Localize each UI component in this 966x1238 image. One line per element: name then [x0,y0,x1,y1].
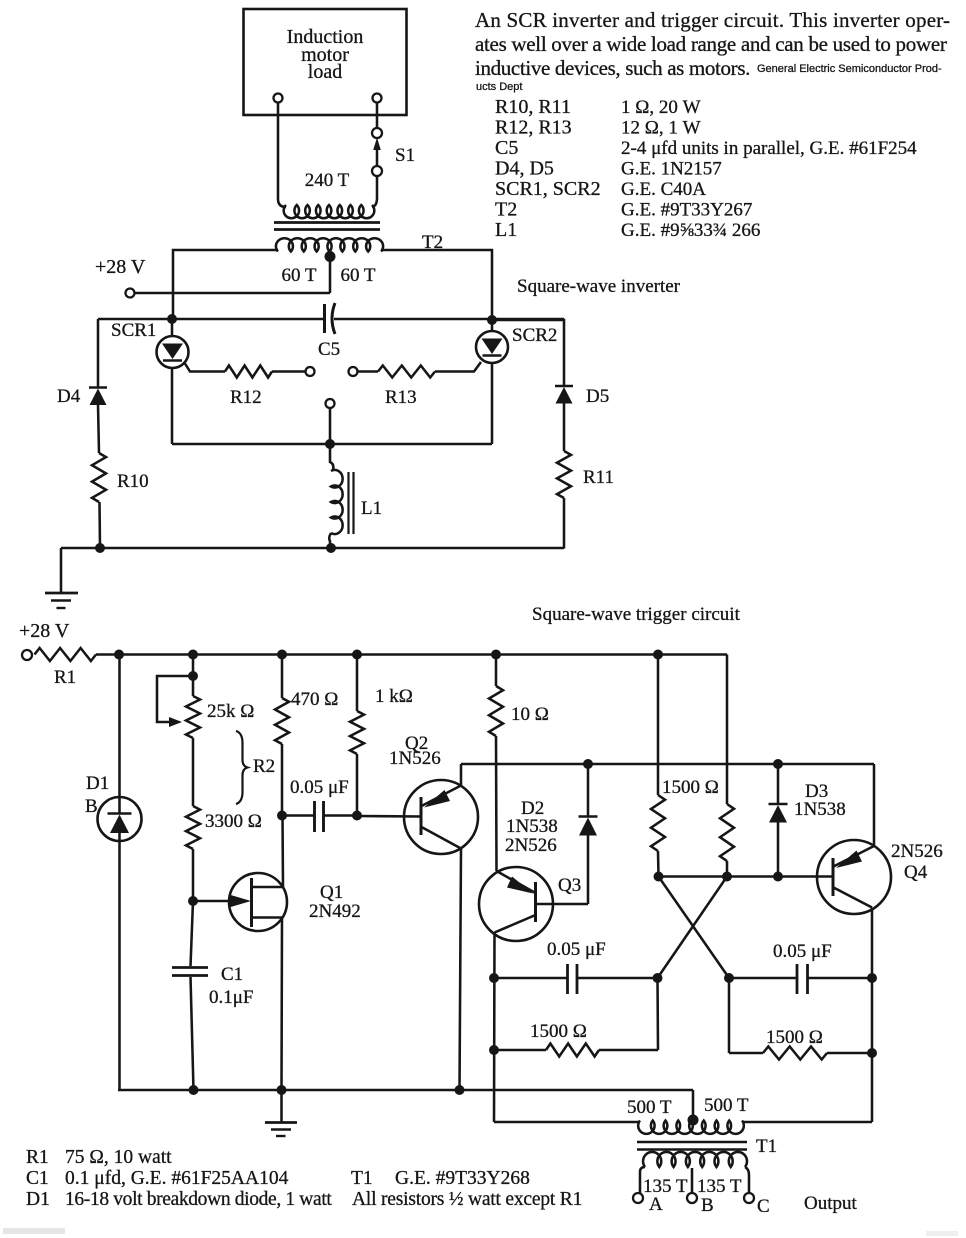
capacitor C1 [191,901,194,966]
node cross left bottom [653,973,663,983]
svg-text:R12: R12 [230,387,262,408]
node Q2 collector bottom [455,1085,465,1095]
wire 1k to cap right node [356,754,359,816]
node 10ohm top [491,650,501,660]
svg-text:2N526: 2N526 [891,841,943,862]
wire trigger bottom rail [118,1089,693,1092]
svg-text:G.E. #9T33Y267: G.E. #9T33Y267 [621,200,752,221]
wire T2 secondary right to SCR2 anode node [381,250,492,320]
svg-text:S1: S1 [395,145,415,166]
node D3 bottom [773,872,783,882]
transformer T2 core [274,221,380,224]
node cap left [277,811,287,821]
svg-text:+28 V: +28 V [95,256,146,278]
svg-text:1N538: 1N538 [794,799,846,820]
node 470 top [277,650,287,660]
wire cap to Q2 base [357,815,421,818]
svg-text:10 Ω: 10 Ω [511,704,549,725]
svg-text:T1: T1 [756,1136,777,1157]
wire T2 center tap down to +28V line [329,254,332,293]
ground (inverter) [45,592,78,595]
wire R12 to gate terminal [272,370,306,373]
terminal motor left [274,94,283,103]
node Q4 collector cap row [867,973,877,983]
resistor 10 ohm [495,655,498,687]
svg-text:G.E. C40A: G.E. C40A [621,179,706,200]
svg-text:C: C [757,1196,770,1217]
wire ground stub [60,548,63,593]
wire cap node to Q1 base-one [281,816,284,888]
node D1 top [114,650,124,660]
svg-text:G.E. #9⅝33¾ 266: G.E. #9⅝33¾ 266 [621,220,760,241]
terminal R12 gate drive [306,367,315,376]
wire terminal to R13 [358,370,379,373]
svg-text:SCR1: SCR1 [111,320,156,341]
svg-text:B: B [701,1195,714,1216]
diode D4 [97,319,100,387]
svg-text:T1: T1 [351,1168,373,1189]
svg-text:R11: R11 [583,467,614,488]
wire rail to T1 center tap [692,1090,695,1120]
capacitor 0.05 uF (Q1-Q2) [287,814,315,817]
wire Q2 collector down to bottom rail [460,849,462,1091]
wire cross-coupling left-to-right [659,877,730,979]
svg-text:16-18 volt breakdown diode, 1: 16-18 volt breakdown diode, 1 watt [65,1189,332,1210]
node L1 bottom [326,543,336,553]
wire 3300 to Q1 emitter node [192,849,195,901]
wire 470 to cap node [281,744,284,816]
diode D3 [777,764,780,804]
scan smudge artifact [3,1228,65,1234]
svg-text:C1: C1 [26,1168,49,1189]
svg-text:3300 Ω: 3300 Ω [205,811,262,832]
svg-text:ates well over a wide load ran: ates well over a wide load range and can… [475,32,947,56]
resistor R12 [225,366,272,378]
svg-text:R10: R10 [117,471,149,492]
terminal output C [744,1193,754,1203]
resistor R10 [92,453,106,502]
svg-text:G.E. #9T33Y268: G.E. #9T33Y268 [395,1168,530,1189]
svg-text:1 kΩ: 1 kΩ [375,686,413,707]
SCR2 [491,320,494,331]
wire rail to pot [192,655,195,697]
svg-text:500 T: 500 T [704,1095,749,1116]
node T1 center tap [688,1115,699,1126]
wire Q4 collector down [871,908,874,1123]
SCR1 [171,319,174,336]
wire Q4 base bus [659,875,834,878]
svg-text:0.05 μF: 0.05 μF [547,939,606,960]
wire Q2 emitter up to bus [460,764,463,786]
wire Q3 collector to T1 primary left [494,1121,640,1124]
node 1500 bottom-right end [867,1048,877,1058]
svg-text:0.05 μF: 0.05 μF [290,777,349,798]
node cap right [352,811,362,821]
capacitor 0.05 uF right [729,977,797,980]
resistor 1500 ohm bottom-right [728,978,731,1053]
resistor 1500 ohm right (collector load) [726,655,729,805]
svg-text:Square-wave inverter: Square-wave inverter [517,276,681,297]
wire Q3 collector down [493,933,496,1123]
svg-text:1500 Ω: 1500 Ω [530,1021,587,1042]
node Q1 ground rail [277,1085,287,1095]
svg-text:D5: D5 [586,386,609,407]
diode D1 (breakdown) [118,655,121,798]
svg-text:R12, R13: R12, R13 [495,117,572,139]
svg-text:60 T: 60 T [340,265,375,286]
switch S1 [376,103,379,129]
svg-text:2N526: 2N526 [505,835,557,856]
node 1k top [352,650,362,660]
wire inverter top rail left (D4 corner to C5) [98,318,324,321]
node cross right bottom [724,973,734,983]
wire R11 to ground rail [563,498,566,549]
svg-text:inductive devices, such as mot: inductive devices, such as motors. [475,56,750,80]
svg-text:1N538: 1N538 [506,816,558,837]
svg-text:1500 Ω: 1500 Ω [766,1027,823,1048]
node T2 center tap [325,251,336,262]
wire Q1 base-two down to ground rail [280,918,283,1091]
node SCR1 anode [167,314,177,324]
node C1 ground rail [189,1085,199,1095]
transformer T2 primary 240 T [284,205,375,218]
svg-text:All resistors ½ watt except R1: All resistors ½ watt except R1 [352,1189,582,1210]
svg-text:C1: C1 [221,964,243,985]
svg-text:0.1μF: 0.1μF [209,987,254,1008]
svg-text:+28 V: +28 V [19,620,70,642]
svg-text:L1: L1 [495,219,517,241]
capacitor C5 [323,304,326,333]
wire SCR1 gate to R12 [184,362,225,372]
svg-text:SCR2: SCR2 [512,325,557,346]
svg-text:75 Ω, 10 watt: 75 Ω, 10 watt [65,1147,172,1168]
wire Q4 emitter up to bus [873,764,876,846]
terminal motor right [373,94,382,103]
wire trigger top rail [96,653,727,656]
ground (trigger) [280,1090,283,1122]
svg-text:T2: T2 [495,199,517,221]
node L1 top [325,439,335,449]
svg-text:C5: C5 [495,137,518,159]
node D2 top [583,759,593,769]
svg-text:B: B [85,796,98,817]
node D3 top [773,759,783,769]
terminal output A [633,1193,643,1203]
svg-text:ucts Dept: ucts Dept [476,81,522,93]
node R10 ground rail [95,543,105,553]
wire center terminal down to bottom rail [329,408,332,444]
wire 10ohm to Q3 emitter [495,736,498,871]
svg-text:0.05 μF: 0.05 μF [773,941,832,962]
resistor R11 [557,451,571,498]
node pot top [188,650,198,660]
transistor Q4 (2N526) [817,840,891,914]
svg-text:L1: L1 [361,498,382,519]
svg-text:12 Ω, 1 W: 12 Ω, 1 W [621,118,701,139]
svg-text:135 T: 135 T [697,1176,742,1197]
induction motor load box [244,9,407,115]
wire T2 secondary left to SCR1 anode node [173,250,278,319]
transistor Q3 (2N526) [479,867,553,941]
svg-text:Q1: Q1 [320,882,343,903]
resistor 470 ohm [281,655,284,699]
svg-text:R1: R1 [54,667,76,688]
terminal gate drive center [326,399,335,408]
svg-text:500 T: 500 T [627,1097,672,1118]
brace R2 [236,731,248,804]
node cross left top [654,872,664,882]
svg-text:R1: R1 [26,1147,49,1168]
diode D2 [587,764,590,817]
resistor 1 k ohm [356,655,359,712]
node 1500 left top [653,650,663,660]
svg-text:2N492: 2N492 [309,901,361,922]
svg-text:470 Ω: 470 Ω [291,689,338,710]
svg-text:Q3: Q3 [558,875,581,896]
wire Q4 collector to T1 primary right [742,1121,872,1124]
diode D5 [492,320,564,386]
svg-text:D4, D5: D4, D5 [495,158,554,180]
svg-text:1500 Ω: 1500 Ω [662,777,719,798]
terminal +28V trigger [22,650,32,660]
node SCR2 anode [487,315,497,325]
terminal R13 gate drive [349,367,358,376]
svg-text:Square-wave trigger circuit: Square-wave trigger circuit [532,604,741,625]
svg-text:Output: Output [804,1193,858,1214]
svg-text:D1: D1 [86,773,109,794]
resistor 1500 ohm bottom-left [494,1049,546,1052]
transformer T1 primary 500 T / 500 T [638,1121,744,1134]
svg-text:R13: R13 [385,387,417,408]
svg-text:2-4 μfd units in parallel, G.E: 2-4 μfd units in parallel, G.E. #61F254 [621,138,917,159]
wire R13 to SCR2 gate [435,362,481,372]
transformer T2 secondary 60 T / 60 T [276,238,383,251]
svg-text:1 Ω, 20 W: 1 Ω, 20 W [621,97,701,118]
resistor R13 [378,366,435,378]
resistor 3300 ohm [186,806,200,849]
svg-text:A: A [649,1194,663,1215]
node Q3 collector cap row [489,973,499,983]
transformer T1 core [637,1141,747,1144]
svg-text:60 T: 60 T [281,265,316,286]
svg-text:load: load [308,61,342,83]
node pot wiper feedback [188,671,198,681]
svg-text:1N526: 1N526 [389,748,441,769]
capacitor 0.05 uF left [494,977,568,980]
svg-text:0.1 μfd, G.E. #61F25AA104: 0.1 μfd, G.E. #61F25AA104 [65,1168,289,1189]
svg-text:R2: R2 [253,756,275,777]
potentiometer 25k ohm [186,696,200,738]
transistor Q1 (2N492 UJT) [193,900,232,903]
svg-text:C5: C5 [318,339,340,360]
resistor R1 [35,648,97,661]
svg-text:SCR1, SCR2: SCR1, SCR2 [495,178,601,200]
svg-text:General Electric Semiconductor: General Electric Semiconductor Prod- [757,63,942,75]
svg-text:D1: D1 [26,1189,50,1210]
svg-text:Q4: Q4 [904,862,928,883]
transistor Q2 (2N526) [404,780,478,854]
wire inverter top rail right (C5 to D5 corner) [334,318,564,321]
wire motor left terminal to T2 primary left [278,103,286,208]
terminal output B [687,1193,697,1203]
svg-text:An SCR inverter and trigger ci: An SCR inverter and trigger circuit. Thi… [475,8,950,32]
wire inverter bottom rail [172,443,492,446]
svg-text:G.E. 1N2157: G.E. 1N2157 [621,159,722,180]
transformer T1 secondary 135 T / 135 T [640,1167,645,1193]
wire R10 to ground rail [98,502,101,548]
wire cross-coupling right-to-left [658,877,728,979]
svg-text:R10, R11: R10, R11 [495,96,571,118]
wire emitter bus (Q2 to Q4) [461,763,874,766]
node cross right top [722,872,732,882]
resistor 1500 ohm left (collector load) [657,655,660,796]
wire pot to 3300 [192,738,195,806]
svg-text:25k Ω: 25k Ω [207,701,254,722]
wire ground rail (inverter) [61,547,564,550]
inductor L1 [330,444,333,470]
svg-text:240 T: 240 T [305,170,350,191]
node 1500 left-bottom left end [489,1045,499,1055]
node Q1 emitter [188,896,198,906]
svg-text:D4: D4 [57,386,81,407]
